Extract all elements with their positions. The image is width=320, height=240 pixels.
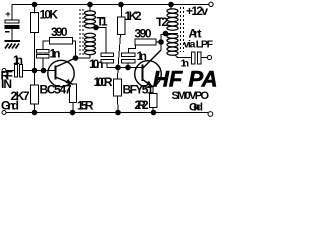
resistor R6 100R [117, 68, 120, 80]
core T1 [79, 9, 81, 55]
node base Q1 feedback [41, 68, 46, 73]
node T1 tap [94, 25, 99, 30]
node junction rail-1K2 [119, 2, 124, 7]
terminal Ant [207, 55, 211, 59]
resistor R5 1K2 [121, 5, 123, 18]
terminal RF IN [2, 69, 6, 73]
resistor R1 10K [34, 5, 36, 14]
wire T1 top lead [89, 5, 91, 12]
svg-text:390: 390 [135, 27, 152, 41]
capacitor C4 10n coupling [105, 28, 107, 54]
core T2 [180, 7, 182, 52]
node rail-15R [70, 110, 75, 115]
resistor R3 390 feedback Q1 [50, 38, 73, 45]
resistor R4 15R emitter Q1 [70, 84, 77, 103]
node junction rail-T2 [169, 2, 174, 7]
transformer T2 primary winding [167, 9, 178, 30]
svg-text:BFY51: BFY51 [123, 83, 154, 97]
node collector Q1 [73, 56, 78, 61]
svg-text:T1: T1 [97, 15, 108, 29]
svg-text:T2: T2 [156, 15, 168, 29]
resistor R7 390 feedback Q2 [135, 39, 156, 45]
node rail-2R2 [151, 110, 156, 115]
node collector Q2 feedback [159, 40, 164, 45]
wire base Q1 [23, 70, 57, 72]
svg-text:1n: 1n [50, 47, 61, 61]
wire top +12v rail [12, 4, 209, 6]
svg-text:2R2: 2R2 [135, 98, 149, 112]
inductor T1 winding (tapped) [85, 11, 96, 55]
svg-text:15R: 15R [77, 99, 94, 113]
capacitor C2 1n input coupling [15, 65, 18, 78]
svg-text:390: 390 [51, 25, 68, 39]
capacitor C6 1n output [192, 52, 196, 64]
svg-text:via LPF: via LPF [184, 39, 214, 51]
terminal +12v [209, 2, 213, 6]
node base Q1 bias [32, 68, 37, 73]
wire T1 bottom to collector Q1 [76, 55, 91, 59]
svg-text:10n: 10n [89, 57, 104, 71]
node junction rail-T1 [88, 2, 93, 7]
wire collector Q2 [160, 42, 162, 50]
svg-text:100R: 100R [94, 75, 113, 89]
svg-text:1n: 1n [13, 53, 23, 67]
svg-text:BC547: BC547 [40, 83, 72, 97]
wire output [175, 55, 192, 58]
node rail-100R [116, 110, 121, 115]
resistor R2 2K7 [34, 71, 36, 86]
svg-text:Gnd: Gnd [189, 102, 203, 114]
svg-text:1n: 1n [137, 49, 148, 63]
node base Q2 bias [116, 65, 121, 70]
transformer T2 secondary winding [167, 34, 178, 55]
wire collector to T2 [161, 34, 166, 43]
resistor R8 2R2 emitter Q2 [152, 87, 154, 94]
svg-text:1K2: 1K2 [125, 9, 142, 23]
wire T2 windings junction [166, 33, 179, 35]
node T2 primary bottom [163, 31, 168, 36]
svg-text:HF PA: HF PA [153, 67, 218, 92]
terminal Gnd left [2, 111, 6, 115]
wire T2 top lead [170, 5, 172, 10]
capacitor C1 electrolytic [11, 5, 13, 21]
svg-text:Gnd: Gnd [1, 99, 19, 113]
capacitor C5 1n feedback Q2 [122, 53, 136, 56]
capacitor C3 1n feedback Q1 [37, 50, 50, 53]
transistor Q2 BFY51 [135, 61, 162, 88]
wire T1 tap [94, 27, 106, 30]
svg-text:SM0VPO: SM0VPO [172, 90, 210, 102]
node junction rail-10K [32, 2, 37, 7]
transistor Q1 BC547 [48, 60, 74, 86]
node rail-2K7 [32, 110, 37, 115]
terminal Gnd right [208, 112, 213, 117]
svg-text:+12v: +12v [186, 4, 208, 18]
wire bottom ground rail [6, 112, 208, 114]
wire base Q2 [107, 67, 143, 69]
node base Q2 feedback [126, 65, 131, 70]
svg-text:10K: 10K [40, 8, 59, 22]
ground (chassis) under C1 [5, 40, 21, 42]
wire RF input [6, 70, 15, 72]
